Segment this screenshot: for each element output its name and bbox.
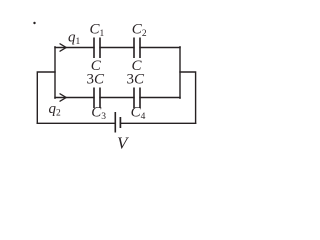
svg-text:q2: q2 (49, 101, 62, 119)
svg-text:C1: C1 (90, 22, 105, 40)
svg-text:3C: 3C (127, 72, 146, 88)
svg-text:C4: C4 (131, 105, 146, 123)
svg-text:C3: C3 (91, 105, 106, 123)
svg-text:C2: C2 (132, 22, 147, 40)
svg-text:q1: q1 (68, 30, 81, 48)
svg-text:V: V (117, 134, 130, 153)
svg-text:3C: 3C (87, 72, 106, 88)
